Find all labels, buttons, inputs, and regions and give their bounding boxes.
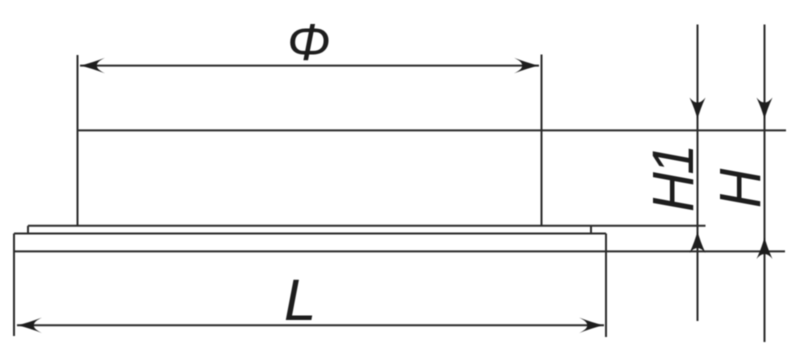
flange lower plate right edge + L extension line: [605, 234, 607, 338]
flange upper plate left edge: [27, 226, 29, 234]
dimension line Φ (top diameter dimension): [80, 58, 539, 74]
svg-text:H1: H1: [641, 146, 706, 212]
flange plate interface line: [14, 233, 606, 235]
body top line (extends right as reference for H1 and H): [78, 129, 787, 131]
body right edge / extension line: [541, 55, 543, 226]
svg-text:L: L: [284, 268, 316, 333]
dimension line H (vertical) with down and up arrowheads: [757, 25, 773, 343]
flange upper plate right edge: [590, 226, 592, 234]
flange bottom line + H extension line: [15, 250, 785, 252]
svg-text:Φ: Φ: [287, 14, 331, 72]
body left edge / extension line: [77, 55, 79, 226]
svg-text:H: H: [707, 168, 772, 208]
flange lower plate left edge + L extension line: [13, 234, 15, 337]
dimension line H1 (vertical) with down and up arrowheads: [690, 25, 706, 322]
dimension line L (bottom overall length): [17, 318, 604, 334]
flange upper plate top line + H1 extension line: [28, 225, 706, 227]
